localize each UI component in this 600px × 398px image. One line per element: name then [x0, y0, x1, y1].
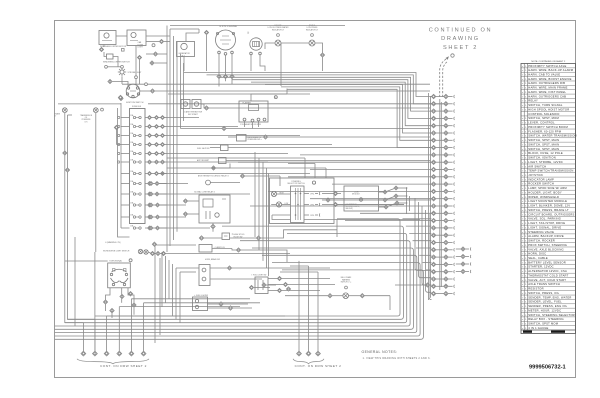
wire fuse feeder 1	[120, 118, 122, 229]
fuse F6	[130, 158, 141, 163]
connector row 19	[431, 226, 455, 230]
svg-text:STARTER, 12VDC: STARTER, 12VDC	[528, 265, 554, 269]
fuse F12	[130, 224, 141, 229]
fuse F2	[130, 123, 141, 128]
bottom connector group 1 wires	[83, 299, 143, 351]
svg-text:WIPER, WINDSHIELD: WIPER, WINDSHIELD	[528, 195, 559, 199]
svg-text:VALVE, SOL, PARKING: VALVE, SOL, PARKING	[528, 217, 561, 221]
wire fuel row	[228, 147, 430, 149]
connector diamond fuse 8	[148, 182, 152, 186]
svg-text:ANTI RESTART: ANTI RESTART	[197, 159, 209, 162]
fuse F9 left lead	[121, 193, 130, 195]
fuse F4	[130, 141, 141, 146]
svg-text:PRESSURE SW ⊙: PRESSURE SW ⊙	[248, 138, 263, 141]
wire hs row	[261, 230, 337, 238]
svg-text:CONTROL SOLENOID: CONTROL SOLENOID	[528, 112, 559, 116]
wire B1 strobe link	[108, 66, 121, 68]
svg-text:DRAWING: DRAWING	[441, 36, 480, 42]
transmission lamp terminal	[101, 108, 104, 111]
4-in-1 gauge G2	[216, 30, 236, 55]
wire wiper switch out	[113, 57, 118, 67]
transmission oil pressure lamp 2	[93, 108, 98, 113]
svg-text:MODULE: MODULE	[352, 194, 360, 196]
svg-text:②: ②	[247, 32, 249, 35]
svg-text:OIL: OIL	[85, 117, 88, 119]
connector diamond wiper	[99, 47, 103, 51]
continued-on terminal circle	[451, 54, 454, 57]
svg-text:NOTE: CONTINUED ON SHEET 2: NOTE: CONTINUED ON SHEET 2	[531, 61, 566, 63]
svg-text:RESISTOR: RESISTOR	[528, 287, 543, 291]
wire extra circles left of fuse block	[118, 116, 120, 163]
wire top rail 2	[198, 29, 200, 33]
fuse F1 right lead	[145, 117, 147, 119]
fuse F7 right lead	[145, 173, 147, 175]
fuse row wires to right	[159, 118, 332, 229]
svg-text:PRESSURE: PRESSURE	[82, 119, 91, 121]
relay K2	[192, 100, 201, 109]
wire strobe drop	[121, 77, 123, 85]
fuse F2 right lead	[145, 126, 147, 128]
bell crank lamp	[343, 293, 349, 299]
svg-text:FUEL SHUTOFF: FUEL SHUTOFF	[197, 148, 210, 150]
wire bus extras	[107, 299, 285, 316]
connector row 16	[431, 204, 455, 208]
svg-text:SWITCH, TURN SIGNAL: SWITCH, TURN SIGNAL	[528, 103, 563, 107]
connector diamond rail1	[63, 151, 67, 155]
svg-text:SWITCH, ROCKER: SWITCH, ROCKER	[528, 239, 555, 243]
connector diamond A4	[153, 52, 157, 56]
wire left rail 2	[68, 115, 95, 319]
steering selector lamp 1	[271, 191, 276, 196]
wire dp row	[212, 248, 232, 250]
wire turn signal feed	[65, 260, 108, 262]
fuse F6 right lead	[145, 161, 147, 163]
connector diamond flash1	[222, 126, 226, 130]
fuse F11	[130, 213, 141, 218]
svg-text:4 IN 1 GAUGE: 4 IN 1 GAUGE	[528, 326, 548, 330]
connector diamond A7	[204, 30, 208, 34]
hold axle switch box	[222, 233, 230, 240]
svg-text:IGNITION SWITCH: IGNITION SWITCH	[126, 102, 144, 104]
wire group2 drop 1	[298, 261, 300, 351]
svg-text:KEY START: KEY START	[188, 113, 199, 116]
svg-text:SWITCH, IGNITION: SWITCH, IGNITION	[528, 156, 556, 160]
connector diamond rail2	[65, 168, 69, 172]
engine indicator terminal	[277, 34, 280, 37]
connector diamond antirelay	[240, 174, 244, 178]
fuse F5	[130, 150, 141, 155]
wire lamp down to bundle	[322, 57, 324, 71]
connector diamond ts4b	[110, 308, 114, 312]
fuse F7 left lead	[121, 173, 130, 175]
svg-text:FLASHER, 60-120 FPM: FLASHER, 60-120 FPM	[528, 129, 561, 133]
wire left rail 3	[74, 237, 76, 326]
wire left component	[58, 103, 121, 105]
wire steer out2	[322, 193, 333, 195]
svg-text:LT: LT	[55, 116, 57, 118]
svg-text:LAMP, SPOD SIDE W/ ARM: LAMP, SPOD SIDE W/ ARM	[528, 186, 567, 190]
svg-text:HARN. OUTRIGGERS CAB: HARN. OUTRIGGERS CAB	[528, 94, 566, 98]
connector row 15	[431, 197, 455, 201]
connector diamond K3c	[211, 224, 215, 228]
svg-text:SWITCH, SPST, MAIN: SWITCH, SPST, MAIN	[528, 147, 559, 151]
connector diamond fuse left	[114, 125, 118, 129]
svg-text:THERMOSTAT COLD START: THERMOSTAT COLD START	[528, 273, 568, 277]
connector diamond fuse 12	[148, 226, 152, 230]
wire A2 link	[139, 60, 141, 84]
fuse F3 left lead	[121, 135, 130, 137]
svg-text:RELAY: RELAY	[528, 99, 538, 103]
light module leads	[379, 187, 408, 207]
wire mid rail cluster	[167, 26, 184, 253]
connector diamond A2	[137, 55, 141, 59]
parts table rows	[522, 64, 577, 330]
svg-text:GLOBAL CORE RELAY ⊙: GLOBAL CORE RELAY ⊙	[194, 191, 216, 194]
wire upper long rows	[337, 205, 420, 220]
svg-text:LIGHT: LIGHT	[138, 46, 144, 48]
svg-text:HARN. CAB TO VALVE: HARN. CAB TO VALVE	[528, 73, 560, 77]
connector diamond ign2	[150, 89, 154, 93]
bottom connector group 2	[297, 351, 321, 356]
ignition switch S2	[126, 84, 140, 98]
wire A7 drop	[206, 35, 208, 71]
svg-text:HARN. WIRE, INST PANEL: HARN. WIRE, INST PANEL	[528, 90, 566, 94]
wire mb6 row	[395, 284, 425, 286]
wiper control box	[199, 265, 210, 286]
hourmeter M2	[250, 38, 263, 55]
wire ign vertical	[135, 79, 137, 84]
data plug J1	[199, 245, 212, 253]
connector circle ign3	[145, 83, 148, 86]
wire lamp to corner	[315, 43, 323, 53]
wire steer out4	[304, 220, 337, 238]
wire ts2 drop	[106, 288, 111, 300]
connector row 7	[431, 138, 455, 142]
connector diamond G2c	[230, 74, 234, 78]
svg-text:CIRCUIT BOARD, OUTRIGGERS: CIRCUIT BOARD, OUTRIGGERS	[528, 212, 574, 216]
connector diamond steer1	[333, 191, 337, 195]
second connector column	[456, 247, 471, 274]
fuse output connectors	[155, 116, 165, 164]
connector diamond fuse 9	[148, 192, 152, 196]
connector diamond steer2	[326, 198, 330, 202]
svg-text:SWITCH, WATER TRANSMISSION: SWITCH, WATER TRANSMISSION	[528, 134, 576, 138]
connector diamond ts1	[120, 294, 124, 298]
svg-text:PROX SWITCH, STEERING: PROX SWITCH, STEERING	[528, 243, 567, 247]
wire steer out3	[330, 199, 431, 201]
bell crank terminal	[345, 286, 348, 289]
wire hs left	[204, 237, 222, 239]
connector diamond ts4	[128, 292, 132, 296]
connector diamond wc	[227, 266, 231, 270]
svg-text:PROXIMITY SWITCH BOOM: PROXIMITY SWITCH BOOM	[528, 125, 568, 129]
wire group2 drop 2	[308, 266, 310, 351]
brake indicator terminal	[311, 34, 314, 37]
connector row 6	[431, 131, 455, 135]
svg-text:SWITCH, STEERING SELECTOR: SWITCH, STEERING SELECTOR	[528, 313, 575, 317]
connector diamond fuse 3	[148, 134, 152, 138]
connector row 23	[431, 255, 455, 259]
connector row 25	[431, 270, 455, 274]
connector diamond fuse 10	[148, 203, 152, 207]
anti restart box	[219, 158, 227, 164]
fuse F10 left lead	[121, 204, 130, 206]
svg-text:AIR SWITCH: AIR SWITCH	[528, 164, 546, 168]
connector row 4	[431, 116, 455, 120]
strobe light	[118, 68, 126, 76]
svg-text:HARN. OUTRIGGERS R/B: HARN. OUTRIGGERS R/B	[528, 81, 565, 85]
steering selector number	[312, 181, 315, 184]
steering selector right leads	[304, 193, 309, 195]
fuse F1 left lead	[121, 117, 130, 119]
connector row 12	[431, 175, 455, 179]
wire left rail 2c	[94, 252, 96, 351]
connector circle A6	[152, 44, 155, 47]
fuse F1	[130, 114, 141, 119]
connector diamond steer3	[333, 202, 337, 206]
connector row 5	[431, 124, 455, 128]
wire bundle feeders	[281, 43, 287, 94]
wire bundle top	[184, 73, 431, 148]
svg-text:INDICATOR LT: INDICATOR LT	[306, 28, 319, 31]
wire fuel left	[210, 147, 221, 149]
wire steering lamp leads	[277, 193, 291, 195]
svg-text:VALVE, ACT, COLD START: VALVE, ACT, COLD START	[528, 278, 566, 282]
connector diamond K2a	[204, 106, 208, 110]
wire fuse feeder 2	[118, 108, 130, 237]
connector circle B1	[105, 65, 108, 68]
steering selector switch S3	[270, 178, 335, 224]
connector diamond ts3	[132, 303, 136, 307]
svg-text:AXLE TRANS SWITCH: AXLE TRANS SWITCH	[528, 282, 560, 286]
hold light connectors	[277, 276, 287, 292]
fuse F7	[130, 170, 141, 175]
wire fl leads	[208, 303, 219, 305]
svg-text:SWITCH, SPST, MAIN: SWITCH, SPST, MAIN	[528, 142, 559, 146]
connector diamond fuse 6	[148, 160, 152, 164]
cab dome light L1	[127, 30, 146, 46]
connector diamond wd1	[161, 251, 165, 255]
flasher FL1	[239, 101, 268, 122]
svg-text:CONTINUED ON: CONTINUED ON	[429, 28, 493, 34]
fuse F10	[130, 201, 141, 206]
svg-text:LIGHT, TAIL/STOP, DRIVE: LIGHT, TAIL/STOP, DRIVE	[528, 221, 565, 225]
connector diamond bc1	[328, 294, 332, 298]
connector circle strobe	[121, 65, 124, 68]
connector row 27	[431, 284, 455, 288]
wire wd row	[166, 253, 290, 255]
turn signal switch S4	[108, 263, 131, 288]
connector diamond G2b	[223, 74, 227, 78]
svg-text:TEMP SWITCH/TRANSMISSION: TEMP SWITCH/TRANSMISSION	[528, 169, 573, 173]
fuse F2 left lead	[121, 126, 130, 128]
connector diamond ign1	[119, 96, 123, 100]
wire generator top	[186, 33, 199, 42]
wire bell crank row	[285, 295, 328, 297]
svg-text:HIGH SPOOL HOIST MOTOR: HIGH SPOOL HOIST MOTOR	[528, 107, 569, 111]
transmission oil pressure lamp 1	[62, 108, 67, 113]
connector diamond K3a	[183, 199, 187, 203]
relay box K3	[199, 195, 230, 223]
fuse output links	[151, 118, 166, 163]
svg-text:③ HOLD LIGHT SW: ③ HOLD LIGHT SW	[251, 274, 267, 277]
svg-text:SWITCH, SPST, MOM: SWITCH, SPST, MOM	[528, 116, 559, 120]
connector row 1	[431, 94, 455, 98]
wire wiper switch link	[104, 52, 107, 57]
wire extra h1	[168, 93, 310, 95]
svg-text:SEE SHT): SEE SHT)	[346, 208, 354, 210]
wire fl out	[223, 303, 248, 305]
connector diamond mb3	[286, 287, 290, 291]
connector diamond fuse 1	[148, 116, 152, 120]
connector diamond lamp	[320, 53, 324, 57]
svg-text:PROXIMITY SWITCH AXLE: PROXIMITY SWITCH AXLE	[528, 64, 566, 68]
wire gauge out drops	[218, 79, 220, 87]
wire wiper motor drop	[103, 45, 105, 48]
connector diamond A3	[150, 61, 154, 65]
connector diamond left top	[118, 95, 122, 99]
wire wc row2	[210, 278, 262, 280]
fuse lower output links	[151, 174, 166, 229]
bottom connector group 1	[81, 351, 146, 356]
hold light leads	[268, 279, 335, 291]
generator alternator G1	[177, 42, 195, 57]
connector diamond fuse 4	[148, 143, 152, 147]
svg-text:STEERING VALVE: STEERING VALVE	[528, 230, 554, 234]
wire generator drop	[183, 57, 185, 72]
fuse F3	[130, 132, 141, 137]
svg-text:INDICATOR LT: INDICATOR LT	[272, 28, 285, 31]
connector circle B2	[135, 76, 138, 79]
svg-text:HORN, BRAKE SW: HORN, BRAKE SW	[205, 258, 220, 261]
connector diamond K3b	[183, 212, 187, 216]
light cluster module U1	[344, 186, 379, 211]
svg-text:HOLDER, LIGHT, BODY: HOLDER, LIGHT, BODY	[528, 190, 562, 194]
svg-text:LIGHT, BLINKER, DOME, 12V: LIGHT, BLINKER, DOME, 12V	[528, 204, 570, 208]
wire A5 row	[146, 41, 159, 43]
wire extra h2	[148, 103, 444, 105]
svg-text:LIGHT MOUNTED MODULE: LIGHT MOUNTED MODULE	[528, 199, 567, 203]
connector diamond bc2	[360, 294, 364, 298]
svg-text:SWITCH, PRESS, OIL: SWITCH, PRESS, OIL	[528, 291, 559, 295]
connector square A1	[122, 49, 125, 52]
svg-text:SWITCH, SPST, MAIN: SWITCH, SPST, MAIN	[528, 138, 559, 142]
wire B3 row	[113, 82, 129, 87]
work drive light switch cluster	[138, 242, 160, 255]
svg-text:FUSE BLK: FUSE BLK	[132, 106, 142, 108]
fuel lighter box	[193, 297, 208, 311]
fuse F8 right lead	[145, 183, 147, 185]
svg-text:RELAY BOX - STEERING: RELAY BOX - STEERING	[528, 317, 564, 321]
wire lower mid verticals	[155, 245, 180, 343]
wire dome light drop	[135, 46, 137, 76]
wire hourmeter drops	[250, 55, 252, 71]
gauge pin wires	[218, 54, 220, 75]
connector diamond ts2	[103, 300, 107, 304]
wire left rail 1 stub	[68, 114, 73, 116]
svg-text:ALARM, BACKUP, DRIVE: ALARM, BACKUP, DRIVE	[528, 234, 564, 238]
connector row 17	[431, 211, 455, 215]
wire ts3 drop	[128, 288, 134, 303]
fuse F4 left lead	[121, 144, 130, 146]
svg-text:TURN SIGNAL: TURN SIGNAL	[109, 260, 122, 263]
wire wd links	[148, 252, 150, 253]
continued-on leader arrow	[440, 59, 447, 98]
idle control box	[237, 135, 247, 142]
wire left rail 2b	[95, 113, 97, 252]
fuse lower output connectors	[149, 172, 164, 230]
wire group2 drop 3	[317, 272, 319, 351]
parts table grid	[521, 64, 576, 334]
wire lower mid rows	[155, 245, 199, 272]
svg-text:HARN. WIRE, MAIN FRAME: HARN. WIRE, MAIN FRAME	[528, 86, 567, 90]
svg-text:ALTERNATOR 12VDC, CSA: ALTERNATOR 12VDC, CSA	[528, 269, 567, 273]
svg-text:SENDER, TEMP, ENG, WATER: SENDER, TEMP, ENG, WATER	[528, 295, 571, 299]
wire anti row	[226, 160, 430, 162]
connector diamond fuse 11	[148, 215, 152, 219]
wire K3 bottom	[212, 223, 214, 224]
connector row 20	[431, 233, 455, 237]
connector column rails	[428, 93, 430, 300]
svg-text:LIGHT, STROBE, 12VDC: LIGHT, STROBE, 12VDC	[528, 160, 563, 164]
wire light module drops	[407, 188, 410, 214]
fuse block FB1	[130, 109, 146, 224]
fuse F5 left lead	[121, 153, 130, 155]
wire corner bundle to lower rows	[255, 152, 269, 276]
connector diamond B3	[108, 79, 112, 83]
wire motor link	[116, 35, 127, 37]
svg-text:SEAL, CABLE: SEAL, CABLE	[528, 256, 548, 260]
connector row 22	[431, 248, 455, 252]
svg-text:④ FLASHER 60-120 FPM: ④ FLASHER 60-120 FPM	[240, 123, 261, 126]
svg-text:LTS: LTS	[85, 121, 88, 123]
wire fuse feeder top	[120, 103, 122, 118]
wire mb3 row	[254, 287, 270, 289]
wire idle row	[246, 136, 263, 138]
connector diamond A5	[159, 39, 163, 43]
engine indicator lamp	[275, 40, 281, 46]
svg-text:SWITCH, SPST MOM: SWITCH, SPST MOM	[528, 322, 558, 326]
fuse F9	[130, 190, 141, 195]
svg-text:SENDER, PRESS, ENG OIL: SENDER, PRESS, ENG OIL	[528, 304, 567, 308]
svg-text:LIGHT, SIGNAL, DRIVE: LIGHT, SIGNAL, DRIVE	[528, 225, 561, 229]
wire antirelay drop	[279, 176, 281, 186]
border frame	[55, 21, 576, 378]
windshield wiper motor M1	[99, 31, 116, 45]
hold light switch S5	[255, 277, 268, 294]
wire horn lead	[210, 182, 240, 184]
svg-text:SWITCH, PRESS, BRAKE LT: SWITCH, PRESS, BRAKE LT	[528, 208, 569, 212]
svg-text:INDICATOR LAMP: INDICATOR LAMP	[528, 177, 554, 181]
connector row 14	[431, 189, 455, 193]
svg-text:WORK/DRIVE LIGHT SWITCH: WORK/DRIVE LIGHT SWITCH	[103, 251, 130, 253]
svg-text:OPRL: OPRL	[310, 215, 314, 217]
connector row 28	[431, 291, 455, 295]
svg-text:BATTERY LEVEL SENSOR: BATTERY LEVEL SENSOR	[528, 260, 566, 264]
relay box K3 leads	[188, 200, 199, 202]
svg-text:HARN. WIRE, BOOST ENGINE: HARN. WIRE, BOOST ENGINE	[528, 77, 571, 81]
steering selector inner contacts	[291, 186, 305, 223]
fuse F11 left lead	[121, 216, 130, 218]
fuse F12 left lead	[121, 227, 130, 229]
wire flasher top	[251, 94, 287, 101]
wire A3 row	[155, 62, 168, 64]
fuse F4 right lead	[145, 144, 147, 146]
connector row 3	[431, 109, 455, 113]
fuse F9 right lead	[145, 193, 147, 195]
svg-text:HARN. WIRE, BACK-UP ALARM: HARN. WIRE, BACK-UP ALARM	[528, 68, 573, 72]
connector diamond mb1	[249, 285, 253, 289]
